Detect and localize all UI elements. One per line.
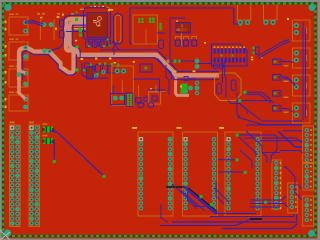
diode D1 — [43, 127, 53, 133]
wire top-layer stub rows — [74, 25, 86, 27]
capacitor C9 box — [140, 64, 152, 72]
R1 pads b — [149, 17, 152, 20]
pads col c — [159, 23, 161, 25]
wire bottom h4 — [222, 224, 298, 229]
wire diag pair up — [257, 40, 289, 57]
wire hpair1 — [245, 92, 270, 104]
marks2 — [114, 62, 116, 64]
pad on vertical — [17, 72, 22, 77]
connector pad — [23, 105, 28, 110]
U1 left pads — [79, 30, 82, 33]
connector pad — [23, 45, 28, 50]
connector pad — [23, 71, 28, 76]
pin header J1 pads — [10, 126, 14, 130]
Q1 pads — [176, 40, 181, 46]
pin strip J6 — [303, 164, 314, 191]
wire diag feed col4 — [271, 137, 277, 163]
resistor R5 — [273, 106, 282, 112]
wire right lower — [283, 167, 302, 200]
wire diode via — [50, 142, 54, 161]
black wire 2 — [250, 218, 262, 220]
blue sub-box — [111, 94, 125, 105]
U1 corner arcs — [80, 8, 84, 11]
trimmer P1 outline — [215, 73, 242, 101]
connector pad — [23, 20, 28, 25]
via v2 — [79, 28, 82, 31]
pin strip J7 — [303, 196, 314, 226]
wire P1 verticals — [222, 60, 224, 83]
cluster2 pads — [101, 70, 105, 74]
wire right verticals — [302, 22, 304, 120]
wire diag bundle — [172, 184, 196, 209]
terminal block X8 — [293, 48, 311, 68]
wire dip3 top — [237, 135, 277, 137]
terminal block X9 — [293, 75, 311, 96]
top right marks — [251, 59, 253, 61]
wire bottom companion 2 — [72, 25, 86, 58]
P1 pads — [217, 84, 222, 95]
origin cross — [0, 230, 10, 240]
connector pad — [23, 54, 28, 59]
box with big pads — [112, 66, 134, 106]
connector X4 outline — [9, 95, 28, 111]
wire dip3 mid — [218, 159, 235, 161]
Q1 label — [176, 24, 186, 32]
op-amp U2 footprint — [212, 44, 248, 66]
smd D5 — [157, 32, 165, 34]
resistor R4 — [273, 91, 282, 97]
connector pad — [23, 97, 28, 102]
via v3 — [75, 68, 78, 71]
connector pad — [23, 82, 28, 87]
U1 bottom pin stubs — [88, 39, 90, 47]
X traces — [112, 41, 119, 50]
window frame — [0, 0, 319, 2]
wire dip3 low — [218, 171, 243, 173]
pad knot — [23, 45, 27, 49]
relay K1 pads — [42, 22, 47, 27]
pad row — [42, 48, 47, 53]
resistor R3 — [273, 75, 282, 81]
Q1 pad brackets — [176, 37, 181, 41]
relay K1 outline — [40, 20, 54, 41]
pin header J2 outline — [29, 125, 40, 227]
IC socket U5 pads — [226, 137, 230, 141]
wire bottom big L — [130, 8, 240, 44]
wires right cluster — [282, 62, 293, 63]
connector X2 outline — [9, 42, 28, 60]
edge marks — [5, 21, 7, 24]
diag to pad2 — [18, 92, 26, 99]
cluster2 bits — [82, 62, 108, 78]
pin strip J4 — [288, 183, 298, 213]
green strip connector — [126, 93, 133, 106]
label top edge marks — [37, 13, 40, 15]
terminal block X10 — [293, 103, 311, 123]
diode D2 — [43, 138, 53, 144]
wire dip2 gap diag — [215, 188, 230, 202]
via bend — [76, 45, 79, 48]
resistor R2 — [273, 59, 282, 65]
wire bottom companion 3 — [50, 15, 86, 51]
terminal block X6 — [264, 4, 278, 20]
transistor Q1 outline — [176, 23, 191, 34]
smd pads left of U1 — [60, 20, 65, 27]
verticals from cluster — [112, 85, 114, 93]
capacitor C1 outline — [114, 14, 123, 45]
wire bottom h5 — [160, 219, 250, 225]
diag to pad — [18, 70, 26, 73]
pin strip J5 — [303, 126, 314, 163]
via d1 — [199, 195, 202, 198]
resistor box R1 — [133, 15, 157, 44]
wire top-layer branch C — [176, 77, 189, 95]
wire hpair2 — [240, 101, 274, 103]
cluster q — [252, 47, 254, 49]
wire bottom h3 — [172, 214, 297, 222]
terminal block X7 — [293, 20, 311, 41]
cluster2 rects — [96, 65, 101, 73]
IC socket U4 pads — [183, 137, 187, 141]
wire bottom h1 — [214, 213, 256, 215]
wire long h a — [246, 124, 302, 126]
connector X3 outline — [9, 69, 28, 87]
wire long diag — [240, 105, 302, 122]
IC socket U3 outline — [138, 132, 173, 216]
U1 GND label — [93, 17, 101, 27]
wire bottom band edges — [79, 58, 172, 80]
IC socket U5 outline — [225, 132, 261, 216]
pair lines — [148, 89, 165, 91]
cluster marks — [174, 71, 177, 73]
capacitor C7 body — [87, 67, 94, 79]
tabs below — [138, 103, 144, 107]
cluster body — [181, 84, 188, 94]
svg-text:MC?,?: MC?,? — [176, 28, 186, 32]
wire diag feed 2 — [240, 150, 252, 168]
via v4 — [239, 23, 242, 26]
small parts on wire — [167, 60, 170, 63]
parts row pads — [88, 45, 90, 47]
pads r — [195, 59, 200, 64]
op-amp U1 module outline — [84, 8, 111, 39]
mounting hole H4 — [308, 230, 315, 237]
cluster2 greens — [90, 64, 92, 66]
wire strip connects — [283, 130, 302, 132]
wire left bottom lines — [161, 204, 168, 222]
pin strip J3 — [272, 160, 281, 209]
Q1 wire left — [170, 18, 185, 61]
pin header J1 outline — [10, 125, 21, 227]
connector pad — [23, 29, 28, 34]
wire blue top — [166, 60, 196, 62]
wire mid h connects — [250, 196, 286, 200]
wire to K1 a — [25, 21, 44, 25]
wire to U2 — [198, 63, 212, 65]
wire to K1 b — [25, 23, 43, 26]
mounting hole H1 — [4, 4, 11, 11]
blue small rect2 — [136, 98, 142, 102]
IC socket U3 pads — [139, 137, 143, 141]
parts row y44 — [86, 41, 91, 47]
pin header J2 pads — [29, 126, 33, 130]
IC socket U4 outline — [183, 132, 218, 216]
cluster blue bits — [166, 65, 169, 95]
wire top-layer band 1 — [78, 55, 220, 76]
connector X1 outline — [9, 17, 28, 35]
terminal block X5 — [238, 4, 251, 20]
cluster pads col — [195, 81, 199, 85]
R1 pads a — [138, 18, 140, 20]
wire top-layer bus A (left knot to MCU) — [19, 19, 86, 80]
via v1 — [75, 18, 78, 21]
wire bottom companion 1 — [23, 51, 77, 80]
mounting hole H2 — [308, 4, 315, 11]
orange box右 — [149, 92, 161, 104]
wire diode diag — [50, 131, 104, 176]
wire top-layer bus B (MCU to band T) — [70, 23, 86, 56]
wire bottom h2 — [210, 214, 294, 217]
mounting hole H3 — [4, 229, 11, 236]
U1 pin marks top — [90, 6, 92, 7]
wire bundle right — [237, 117, 302, 125]
black wire 1 — [166, 186, 185, 188]
